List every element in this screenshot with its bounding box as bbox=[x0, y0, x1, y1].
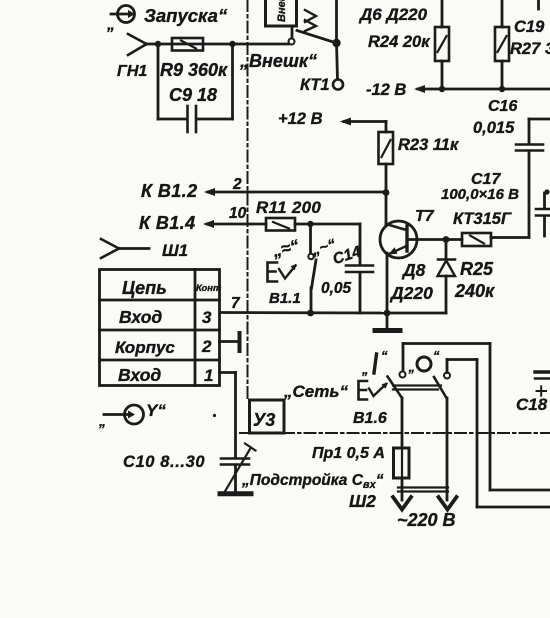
svg-text:КТ315Г: КТ315Г bbox=[453, 210, 512, 228]
svg-text:R11 200: R11 200 bbox=[256, 198, 321, 217]
svg-text:Конт: Конт bbox=[196, 283, 222, 294]
svg-text:Д6 Д220: Д6 Д220 bbox=[358, 5, 428, 24]
svg-text:У3: У3 bbox=[253, 410, 275, 430]
svg-text:R9 360к: R9 360к bbox=[160, 60, 228, 80]
svg-text:Y“: Y“ bbox=[146, 401, 166, 420]
svg-text:„: „ bbox=[98, 413, 106, 429]
svg-text:Запуска“: Запуска“ bbox=[144, 5, 228, 26]
svg-text:~220 В: ~220 В bbox=[397, 510, 456, 530]
svg-text:„Внешк“: „Внешк“ bbox=[239, 51, 317, 71]
svg-text:С9 18: С9 18 bbox=[169, 85, 217, 105]
svg-text:В1.1: В1.1 bbox=[269, 290, 301, 307]
svg-text:С18: С18 bbox=[516, 395, 548, 414]
svg-text:100,0×16 В: 100,0×16 В bbox=[441, 186, 519, 203]
svg-text:Вход: Вход bbox=[118, 365, 161, 385]
svg-text:0,015: 0,015 bbox=[473, 119, 515, 137]
svg-text:К В1.2: К В1.2 bbox=[141, 181, 198, 201]
svg-text:Д8: Д8 bbox=[401, 260, 426, 280]
svg-text:Т7: Т7 bbox=[415, 208, 435, 225]
svg-text:„Сеть“: „Сеть“ bbox=[283, 382, 348, 401]
svg-text:В1.6: В1.6 bbox=[353, 410, 387, 427]
svg-text:С16: С16 bbox=[488, 98, 517, 115]
svg-text:7: 7 bbox=[231, 295, 241, 312]
svg-text:С10 8...30: С10 8...30 bbox=[123, 453, 205, 471]
svg-text:2: 2 bbox=[232, 176, 242, 193]
svg-text:-12 В: -12 В bbox=[366, 81, 406, 99]
svg-text:240к: 240к bbox=[454, 281, 495, 301]
svg-text:+12 В: +12 В bbox=[278, 110, 323, 128]
svg-text:“: “ bbox=[433, 348, 440, 363]
svg-text:1: 1 bbox=[204, 366, 213, 385]
svg-text:10: 10 bbox=[229, 205, 247, 222]
svg-text:0,05: 0,05 bbox=[321, 280, 352, 297]
svg-text:“: “ bbox=[381, 348, 388, 363]
svg-text:R24 20к: R24 20к bbox=[368, 33, 431, 51]
svg-text:К В1.4: К В1.4 bbox=[139, 213, 196, 233]
svg-text:R23 11к: R23 11к bbox=[398, 136, 460, 154]
svg-text:„Подстройка Свх“: „Подстройка Свх“ bbox=[241, 472, 384, 491]
svg-text:Вход: Вход bbox=[119, 307, 162, 327]
svg-text:Внешн: Внешн bbox=[276, 0, 288, 22]
svg-text:С19: С19 bbox=[514, 18, 545, 36]
svg-text:R25: R25 bbox=[460, 259, 494, 279]
svg-text:Ш1: Ш1 bbox=[162, 241, 188, 260]
svg-text:2: 2 bbox=[201, 337, 212, 356]
svg-text:„: „ bbox=[408, 360, 416, 375]
svg-text:„: „ bbox=[106, 17, 115, 34]
svg-text:„: „ bbox=[361, 362, 369, 377]
svg-text:R27 З: R27 З bbox=[510, 40, 550, 58]
svg-text:ГН1: ГН1 bbox=[117, 63, 147, 80]
svg-text:КТ1: КТ1 bbox=[300, 76, 330, 94]
svg-text:Цепь: Цепь bbox=[122, 278, 167, 298]
svg-text:Корпус: Корпус bbox=[115, 338, 175, 357]
svg-text:3: 3 bbox=[202, 308, 212, 327]
svg-text:Ш2: Ш2 bbox=[349, 491, 376, 511]
svg-text:Пр1 0,5 А: Пр1 0,5 А bbox=[312, 445, 385, 462]
svg-text:Д220: Д220 bbox=[389, 283, 433, 303]
